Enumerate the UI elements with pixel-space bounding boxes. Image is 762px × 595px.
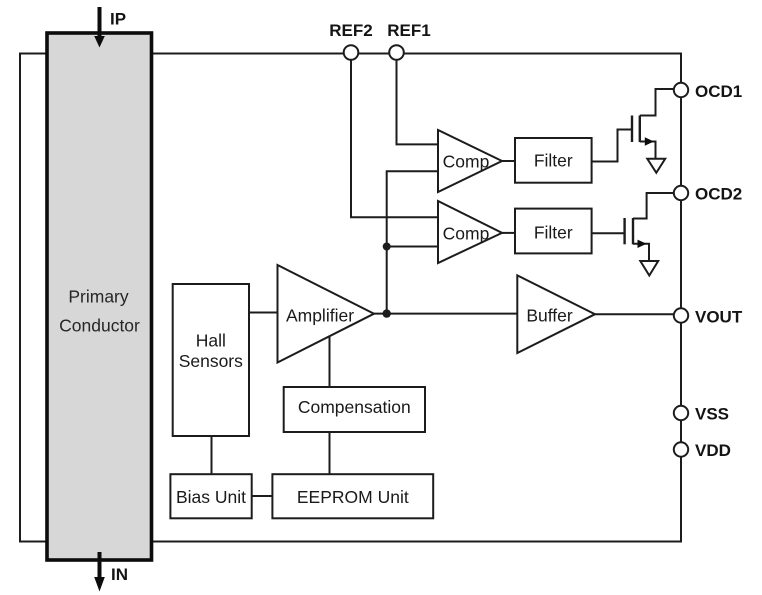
svg-text:REF2: REF2 [329, 21, 372, 40]
Bias Unit box [170, 474, 251, 518]
node junction dot amplifier output [383, 309, 391, 317]
svg-text:OCD1: OCD1 [695, 82, 742, 101]
wire REF1 vertical to Comp1 upper input [397, 60, 439, 144]
wire Bias Unit to EEPROM Unit [252, 495, 273, 497]
wire Hall Sensors to Amplifier [249, 312, 278, 314]
wire Amplifier to Compensation [329, 335, 331, 387]
wire Comp2 lower input [387, 246, 438, 248]
svg-text:Hall: Hall [196, 331, 226, 351]
Q1 gate bar [631, 116, 633, 143]
Q2 gate bar [623, 218, 625, 244]
wire REF2 vertical to Comp2 upper input [351, 60, 438, 217]
wire Filter1 output to Q1 gate [592, 130, 632, 162]
svg-text:Compensation: Compensation [298, 397, 411, 417]
comparator Comp2 [438, 201, 502, 263]
IP input arrow [98, 7, 102, 37]
wire amplifier output to buffer input [374, 313, 517, 315]
wire Comp1 output to Filter1 [502, 160, 515, 162]
svg-text:REF1: REF1 [387, 21, 430, 40]
svg-text:Filter: Filter [534, 151, 573, 171]
terminal REF2 [344, 45, 359, 60]
transistor Q2 (OCD2 output MOSFET) [625, 193, 674, 261]
terminal REF1 [389, 45, 404, 60]
svg-text:IN: IN [111, 565, 128, 584]
svg-text:Comp: Comp [443, 224, 490, 244]
svg-text:Filter: Filter [534, 223, 573, 243]
Q1 source arrow [645, 137, 654, 145]
svg-text:IP: IP [110, 10, 126, 29]
terminal VSS [674, 406, 688, 420]
Filter2 box [515, 209, 592, 254]
svg-text:Conductor: Conductor [59, 316, 140, 336]
svg-text:Comp: Comp [443, 152, 490, 172]
EEPROM Unit box [272, 474, 433, 518]
Filter1 box [515, 138, 592, 183]
wire Buffer output to VOUT [595, 313, 674, 315]
terminal VOUT [674, 308, 688, 322]
svg-text:Amplifier: Amplifier [286, 306, 354, 326]
Q2 source arrow [638, 240, 647, 248]
svg-text:Buffer: Buffer [526, 306, 573, 326]
svg-text:VSS: VSS [695, 405, 729, 424]
wire Hall Sensors to Bias Unit [211, 436, 213, 474]
comparator Comp1 [438, 130, 502, 192]
node junction dot comp2 input [383, 243, 391, 251]
Buffer amplifier [517, 275, 595, 353]
Q1 channel bar [639, 116, 641, 143]
Hall Sensors box [173, 284, 249, 436]
IC boundary box [20, 54, 681, 542]
terminal VDD [674, 442, 688, 456]
wire feedback vertical from amplifier output up to Comp1 lower input [387, 171, 438, 313]
wire Filter2 output to Q2 gate [592, 232, 625, 234]
terminal OCD1 [674, 83, 688, 97]
Q2 drain lead to OCD2 [633, 193, 674, 219]
wire Comp2 output to Filter2 [502, 232, 515, 234]
svg-text:OCD2: OCD2 [695, 185, 742, 204]
Q1 drain lead to OCD1 [640, 89, 674, 116]
wire Compensation to EEPROM Unit [329, 432, 331, 474]
ground symbol 2 [640, 261, 658, 276]
ground symbol 1 [647, 159, 665, 173]
transistor Q1 (OCD1 output MOSFET) [632, 89, 674, 158]
op-amp Amplifier [278, 265, 375, 363]
svg-text:VDD: VDD [695, 441, 731, 460]
svg-text:VOUT: VOUT [695, 308, 743, 327]
svg-text:Sensors: Sensors [179, 351, 243, 371]
Q2 channel bar [632, 218, 634, 244]
svg-text:Primary: Primary [68, 287, 129, 307]
IN output arrow [98, 552, 102, 578]
Q1 source lead [640, 142, 656, 159]
svg-text:Bias Unit: Bias Unit [176, 487, 246, 507]
Q2 source lead [633, 244, 649, 261]
primary conductor [47, 33, 152, 560]
terminal OCD2 [674, 186, 688, 200]
Compensation box [284, 387, 425, 432]
svg-text:EEPROM Unit: EEPROM Unit [297, 487, 409, 507]
